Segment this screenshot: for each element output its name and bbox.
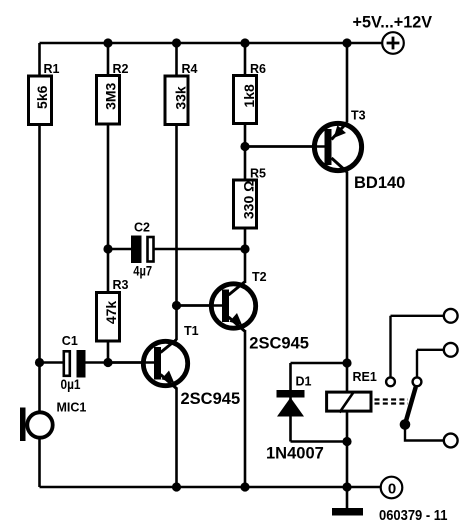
wire D1 bottom horizontal [291, 440, 348, 443]
resistor R2 [97, 62, 129, 124]
wire C1 row left [40, 361, 64, 364]
relay contact: moving contact dot [400, 419, 411, 430]
svg-text:R5: R5 [250, 167, 266, 181]
svg-text:MIC1: MIC1 [57, 401, 87, 415]
node R6 bottom / T3 base [240, 142, 249, 151]
wire left rail upper (through R1 position) [38, 43, 41, 411]
supply terminal plus [353, 14, 433, 54]
svg-text:R3: R3 [113, 278, 129, 292]
node bottom rail T2 [240, 482, 249, 491]
capacitor C2 [131, 221, 154, 279]
ground terminal 0 [381, 477, 403, 499]
wire C1 to T1 base [84, 361, 155, 364]
relay RE1 coil [327, 370, 377, 413]
node T2 base / T1 collector [172, 301, 181, 310]
wire D1 column [289, 363, 292, 442]
node C1 left on rail [35, 358, 44, 367]
wire T2 base [177, 304, 223, 307]
node C2 left [103, 244, 112, 253]
mechanical link dashed lines [375, 400, 409, 404]
wire T3 emitter from rail [346, 43, 349, 123]
relay contact: lever arm [406, 387, 416, 422]
capacitor C1 [61, 334, 86, 392]
transistor T1 [108, 324, 240, 487]
node top rail R2 [103, 38, 112, 47]
wire R2/R3 column [107, 43, 110, 363]
svg-text:C1: C1 [62, 334, 78, 348]
transistor T3 [245, 109, 405, 193]
resistor R1 [29, 62, 60, 125]
svg-text:T2: T2 [252, 270, 267, 284]
resistor R3 [97, 278, 129, 341]
wire top supply rail [40, 42, 383, 45]
node bottom rail relay [342, 482, 351, 491]
node bottom rail T1 [172, 482, 181, 491]
wire T3 base [245, 145, 325, 148]
wire T2 emitter down [244, 330, 247, 487]
node top rail R6 [240, 38, 249, 47]
svg-text:4µ7: 4µ7 [133, 263, 152, 279]
svg-text:47k: 47k [103, 301, 119, 325]
wire bottom ground rail [40, 486, 381, 489]
wire R6/R5/T2 collector column [244, 43, 247, 283]
relay contact: pivot wire and pivot point [413, 350, 444, 386]
resistor R4 [165, 62, 198, 125]
svg-text:3M3: 3M3 [103, 82, 119, 109]
node top rail R4 [172, 38, 181, 47]
svg-text:2SC945: 2SC945 [181, 390, 241, 408]
wire T3 collector down through relay [346, 172, 349, 488]
ground symbol [332, 508, 363, 516]
svg-text:T3: T3 [351, 109, 366, 123]
svg-text:R4: R4 [182, 62, 198, 76]
svg-text:C2: C2 [134, 221, 150, 235]
svg-text:R1: R1 [44, 62, 60, 76]
svg-text:0: 0 [388, 480, 396, 497]
svg-text:D1: D1 [296, 375, 312, 389]
node D1 bottom [342, 437, 351, 446]
wire D1 top horizontal [291, 362, 348, 365]
svg-text:+5V...+12V: +5V...+12V [353, 14, 433, 32]
svg-text:0µ1: 0µ1 [61, 376, 81, 392]
switch terminal top [444, 309, 458, 323]
node T1 base / R3 bottom [103, 358, 112, 367]
wire R4 / T1 collector / T2 base column [175, 43, 178, 340]
switch terminal middle [444, 343, 458, 357]
relay contact: NO wire [405, 425, 444, 441]
wire ground stub [346, 487, 349, 508]
wire left rail lower (mic to bottom rail) [38, 440, 41, 488]
svg-text:T1: T1 [184, 324, 199, 338]
node D1 top [342, 358, 351, 367]
diode D1 [266, 375, 324, 463]
svg-text:1N4007: 1N4007 [266, 445, 324, 463]
svg-text:330 Ω: 330 Ω [241, 181, 257, 219]
svg-text:33k: 33k [173, 86, 189, 110]
node top rail T3 [342, 38, 351, 47]
resistor R5 [234, 167, 267, 229]
svg-text:060379 - 11: 060379 - 11 [379, 507, 448, 524]
svg-text:R2: R2 [113, 62, 129, 76]
relay contact: NC wire and contact point [386, 316, 444, 386]
node C2 right / R5 bottom [240, 244, 249, 253]
svg-text:1k8: 1k8 [241, 84, 257, 108]
transistor T2 [177, 270, 309, 353]
switch terminal bottom [444, 434, 458, 448]
wire C2 row left [108, 248, 132, 251]
svg-text:R6: R6 [250, 62, 266, 76]
svg-text:5k6: 5k6 [34, 85, 50, 109]
resistor R6 [234, 62, 267, 124]
microphone MIC1 [20, 401, 86, 442]
svg-text:BD140: BD140 [354, 174, 405, 192]
wire C2 row right [154, 248, 245, 251]
svg-text:RE1: RE1 [353, 370, 377, 384]
svg-text:2SC945: 2SC945 [249, 335, 309, 353]
